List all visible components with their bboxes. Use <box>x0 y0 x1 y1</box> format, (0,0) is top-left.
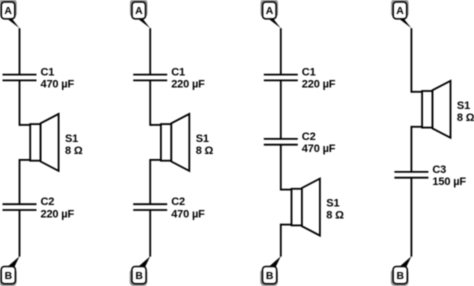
svg-text:C2: C2 <box>171 196 185 208</box>
label C2 470 µF <box>302 131 336 155</box>
svg-text:470 µF: 470 µF <box>41 79 75 91</box>
wire <box>410 126 412 172</box>
svg-text:A: A <box>266 6 274 17</box>
svg-text:A: A <box>4 6 12 17</box>
svg-text:C1: C1 <box>41 67 55 79</box>
speaker S1 <box>281 179 320 236</box>
speaker S1 <box>411 81 450 138</box>
svg-text:B: B <box>266 271 274 282</box>
wire <box>149 210 151 257</box>
svg-text:B: B <box>5 271 13 282</box>
svg-text:C2: C2 <box>41 196 55 208</box>
capacitor C2 <box>133 204 167 210</box>
capacitor C1 <box>264 75 298 81</box>
node A (column 3) <box>261 0 281 28</box>
wire <box>149 80 151 125</box>
node A (column 2) <box>130 0 150 28</box>
label C1 220 µF <box>302 67 336 91</box>
label S1 8 Ω <box>65 133 83 157</box>
node B (column 1) <box>0 256 20 286</box>
wire <box>410 28 412 93</box>
wire <box>149 159 151 204</box>
svg-text:C2: C2 <box>302 131 316 143</box>
capacitor C2 <box>3 204 37 210</box>
svg-text:C1: C1 <box>171 67 185 79</box>
wire <box>19 28 21 74</box>
speaker S1 <box>20 114 59 171</box>
node B (column 2) <box>130 256 151 286</box>
node B (column 3) <box>260 256 281 286</box>
svg-text:220 µF: 220 µF <box>171 79 205 91</box>
label S1 8 Ω <box>326 198 344 222</box>
capacitor C1 <box>133 75 167 81</box>
svg-text:8 Ω: 8 Ω <box>65 145 83 157</box>
label S1 8 Ω <box>457 100 474 124</box>
svg-text:470 µF: 470 µF <box>171 208 205 220</box>
svg-text:S1: S1 <box>326 198 339 210</box>
capacitor C3 <box>394 172 428 178</box>
svg-text:B: B <box>135 271 143 282</box>
label C2 220 µF <box>41 196 75 220</box>
svg-text:C3: C3 <box>432 164 446 176</box>
label C1 470 µF <box>41 67 75 91</box>
label S1 8 Ω <box>196 133 214 157</box>
svg-text:8 Ω: 8 Ω <box>457 112 474 124</box>
wire <box>149 28 151 74</box>
svg-text:220 µF: 220 µF <box>302 79 336 91</box>
svg-text:B: B <box>397 271 405 282</box>
capacitor C1 <box>3 75 37 81</box>
label C3 150 µF <box>432 164 466 188</box>
wire <box>19 210 21 257</box>
node A (column 4) <box>391 0 411 28</box>
svg-text:220 µF: 220 µF <box>41 208 75 220</box>
svg-text:A: A <box>396 6 404 17</box>
wire <box>19 159 21 204</box>
svg-text:S1: S1 <box>457 100 470 112</box>
node B (column 4) <box>391 256 412 286</box>
wire <box>280 80 282 138</box>
label C2 470 µF <box>171 196 205 220</box>
label C1 220 µF <box>171 67 205 91</box>
svg-text:S1: S1 <box>196 133 209 145</box>
svg-text:8 Ω: 8 Ω <box>196 145 214 157</box>
capacitor C2 <box>264 139 298 145</box>
speaker S1 <box>150 114 189 171</box>
wire <box>19 80 21 125</box>
svg-text:8 Ω: 8 Ω <box>326 210 344 222</box>
svg-text:C1: C1 <box>302 67 316 79</box>
svg-text:470 µF: 470 µF <box>302 143 336 155</box>
wire <box>410 178 412 257</box>
node A (column 1) <box>0 0 20 28</box>
svg-text:A: A <box>135 6 143 17</box>
wire <box>280 224 282 257</box>
svg-text:150 µF: 150 µF <box>432 176 466 188</box>
wire <box>280 28 282 74</box>
svg-text:S1: S1 <box>65 133 78 145</box>
wire <box>280 145 282 191</box>
